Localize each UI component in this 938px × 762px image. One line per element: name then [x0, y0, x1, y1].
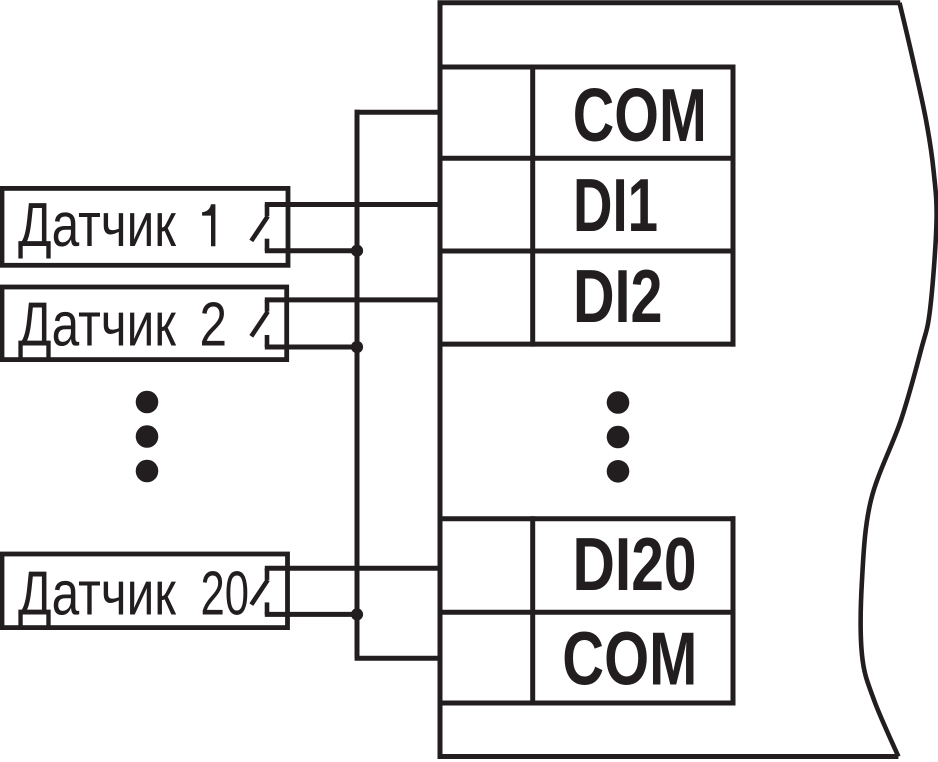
wire sensor2 bottom to bus [265, 345, 357, 350]
device body outline (module, torn right edge) [438, 1, 937, 759]
label Датчик 20 [18, 559, 249, 629]
ellipsis dots terminal column [607, 391, 630, 414]
svg-text:DI2: DI2 [573, 254, 663, 338]
sensor box 2 (Датчик 2) [2, 287, 287, 360]
switch contact S2 [251, 300, 267, 347]
junction dot bus / sensor20 [351, 608, 363, 620]
svg-text:DI20: DI20 [573, 522, 697, 606]
label Датчик 2 [18, 290, 227, 360]
wire sensor2 top to DI2 [265, 297, 440, 302]
sensor box 20 (Датчик 20) [2, 554, 288, 628]
sensor box 1 (Датчик 1) [2, 188, 288, 265]
junction dot bus / sensor2 [351, 341, 363, 353]
svg-text:DI1: DI1 [573, 163, 658, 247]
wire sensor20 top to DI20 [265, 566, 440, 571]
wire sensor1 top to DI1 [265, 202, 440, 207]
wire sensor1 bottom to bus [265, 248, 357, 253]
label Датчик 1 [18, 190, 215, 260]
wire COM bus vertical [355, 110, 360, 658]
terminal block bottom (rows DI20, COM) [438, 516, 736, 705]
svg-text:Датчик: Датчик [18, 190, 177, 260]
svg-text:COM: COM [562, 617, 697, 701]
wire COM bus top horizontal [355, 110, 440, 115]
switch contact S1 [251, 205, 267, 251]
svg-text:COM: COM [573, 73, 707, 157]
terminal block top (rows COM, DI1, DI2) [438, 65, 736, 347]
svg-text:20: 20 [201, 559, 250, 629]
wire COM bus bottom horizontal [355, 656, 440, 661]
switch contact S20 [251, 568, 267, 614]
junction dot bus / sensor1 [351, 245, 363, 257]
svg-text:Датчик: Датчик [18, 559, 177, 629]
svg-text:2: 2 [200, 290, 228, 360]
wire sensor20 bottom to bus [265, 612, 357, 617]
svg-text:Датчик: Датчик [18, 290, 177, 360]
ellipsis dots left column [136, 391, 159, 414]
